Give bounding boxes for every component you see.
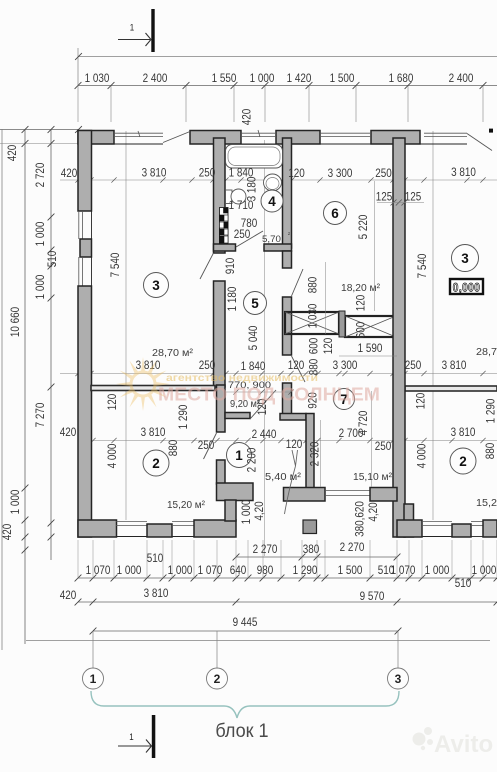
svg-text:4: 4 [268,194,276,209]
bath east wall [283,138,292,248]
svg-text:15,20 м²: 15,20 м² [167,500,206,511]
svg-text:510: 510 [46,251,59,268]
toilet [226,190,233,204]
top wall pier A (corner room 3) [78,131,114,145]
top wall pier D (party) [371,131,420,145]
axis row line [26,640,490,642]
dim line top [78,85,497,87]
svg-text:1 030: 1 030 [85,72,110,85]
window bath top [241,143,276,145]
top wall pier C (bath/kitchen) [276,131,320,145]
axis line unit2 [432,131,434,520]
bottom wall room2 segment A [78,520,117,537]
svg-text:9 445: 9 445 [233,616,258,629]
dim row y440 [93,440,497,442]
svg-text:15,10 м²: 15,10 м² [353,472,393,483]
dim line left horizontal [0,129,79,131]
svg-text:3 300: 3 300 [328,167,353,180]
door gap room 3 top leaf [163,132,190,143]
svg-text:2 400: 2 400 [449,72,474,85]
svg-text:120: 120 [286,438,303,451]
svg-text:4 000: 4 000 [416,444,429,469]
svg-text:блок 1: блок 1 [215,720,268,742]
svg-text:1 500: 1 500 [338,564,363,577]
left exterior wall lower [78,286,92,537]
svg-text:2: 2 [459,454,467,469]
svg-text:3 810: 3 810 [141,426,166,439]
bottom wall segment B [194,520,236,537]
svg-text:250: 250 [199,359,216,372]
porch north-west block [217,483,254,501]
svg-text:4,20: 4,20 [253,501,266,520]
svg-text:1 070: 1 070 [198,564,223,577]
svg-text:9 570: 9 570 [360,590,385,603]
spine wall lower [214,281,226,387]
svg-text:1: 1 [130,22,135,33]
party wall footing [404,504,414,537]
svg-text:15,20 м²: 15,20 м² [476,498,497,509]
svg-text:3: 3 [152,278,160,293]
dim line kitchen 1030 [325,262,327,334]
svg-text:250: 250 [199,167,216,180]
svg-text:250: 250 [405,359,422,372]
svg-text:510: 510 [147,552,164,565]
svg-text:420: 420 [61,167,78,180]
hall door to corridor leaf [250,390,276,419]
porch dim row [236,556,397,558]
svg-text:1: 1 [129,731,134,742]
block 1 brace [91,691,399,718]
dim line room7 4720 [371,391,373,487]
svg-text:1 290: 1 290 [485,399,497,424]
svg-text:1 290: 1 290 [177,405,190,430]
room1 west wall lower [217,460,226,484]
svg-text:600: 600 [308,338,321,355]
bottom wall unit2 segment A [397,520,422,537]
svg-text:1 000: 1 000 [250,72,275,85]
room circle 7 [334,389,355,410]
dim line corridor 770-900 [226,391,291,393]
svg-text:420: 420 [60,589,77,602]
svg-text:2: 2 [152,456,160,471]
plumbing shaft [220,208,229,244]
svg-text:1: 1 [235,448,243,463]
svg-text:6: 6 [331,206,339,221]
svg-text:1 680: 1 680 [389,72,414,85]
dim line left inner [50,130,52,561]
bath bottom wall left [214,244,236,251]
svg-text:Avito: Avito [434,731,493,758]
bottom wall unit2 window 2 [471,521,483,523]
party wall [393,138,405,537]
svg-text:3 810: 3 810 [442,359,467,372]
svg-text:380,620: 380,620 [354,501,367,537]
window room 3 top [114,143,163,145]
svg-text:2 700: 2 700 [339,427,364,440]
svg-text:910: 910 [224,258,237,275]
svg-text:1 000: 1 000 [9,490,22,515]
section mark 1 bottom [152,715,156,758]
top wall pier B (room3/bath) [190,131,241,145]
avito watermark [413,727,494,758]
room circle 3 [144,273,169,298]
svg-text:510: 510 [455,577,472,590]
bottom wall unit2 pier [452,524,471,537]
svg-text:2: 2 [214,672,221,686]
svg-text:420: 420 [1,524,14,541]
bottom dim row 3 [93,630,398,632]
svg-text:1 000: 1 000 [240,500,253,525]
svg-text:3: 3 [461,251,469,266]
bottom wall pier [147,524,172,537]
bath door leaf [236,231,263,247]
bath bottom wall right [264,244,292,251]
svg-text:1 000: 1 000 [168,564,193,577]
window unit2 top [420,143,467,145]
room circle 1 [227,443,252,468]
svg-text:3: 3 [395,672,402,686]
kitchen hatch box 2 [345,316,396,337]
svg-text:1: 1 [90,672,97,686]
svg-text:28,70 м²: 28,70 м² [476,347,497,358]
dim line left outer [24,130,26,645]
svg-text:1 000: 1 000 [425,564,450,577]
svg-text:1 290: 1 290 [293,564,318,577]
kitchen door leaf [292,269,304,296]
bathtub [226,145,283,169]
svg-text:7 270: 7 270 [34,403,47,428]
room circle 2 [450,448,476,474]
dim line 125-125 [377,202,424,204]
center vertical guide [264,140,266,556]
svg-text:3 810: 3 810 [136,359,161,372]
porch wall segment A [284,488,326,502]
svg-text:1 840: 1 840 [241,360,266,373]
kitchen hatch box 1 [285,312,339,334]
watermark sun [116,357,170,411]
left wall window 1 [78,211,80,239]
bottom wall window 1 [116,521,147,523]
axis circle 3 [397,631,399,668]
porch column [303,520,317,534]
svg-text:2 720: 2 720 [34,163,47,188]
svg-text:агентство недвижимости: агентство недвижимости [166,373,318,384]
svg-text:4,20: 4,20 [367,502,380,521]
svg-text:250: 250 [375,167,392,180]
door unit2 top leaf [467,134,492,151]
svg-text:3 180: 3 180 [246,177,259,202]
bottom dim row 1 [78,577,497,579]
dim row y180 [60,179,497,181]
room circle 5 [244,292,267,315]
svg-text:7 540: 7 540 [416,254,429,279]
room circle 6 [324,202,347,225]
svg-text:880: 880 [307,277,320,294]
svg-text:1 000: 1 000 [117,564,142,577]
divider hall-room7 [306,414,314,492]
room1-room2 door leaf [204,433,217,459]
bottom wall unit2 segment B [483,520,497,537]
svg-text:120: 120 [106,394,119,411]
dim line kitchen vertical [374,181,376,311]
bottom wall window 2 [172,521,194,523]
entry door leaf [292,450,298,466]
svg-text:3 810: 3 810 [451,166,476,179]
border line top [78,56,497,58]
svg-text:1 420: 1 420 [287,72,312,85]
svg-text:600: 600 [355,322,368,339]
svg-text:2 270: 2 270 [253,543,278,556]
axis circle 1 [92,631,94,668]
sink [264,174,282,191]
svg-text:420: 420 [241,109,254,126]
svg-text:3 810: 3 810 [144,587,169,600]
svg-text:2 440: 2 440 [252,428,277,441]
dim line room7 2320 [320,420,322,487]
svg-text:640: 640 [230,564,247,577]
svg-text:7 540: 7 540 [109,253,122,278]
room2 east wall lower [225,500,236,521]
room circle 3 [452,245,479,272]
svg-text:1 000: 1 000 [34,275,47,300]
svg-text:5 040: 5 040 [247,326,260,351]
corridor east wall lower [283,383,292,414]
left exterior wall upper pier [78,131,92,212]
divider wall rooms 3-2 unit1 [91,386,215,391]
svg-text:120: 120 [415,393,428,410]
svg-text:МЕСТО ПОД СОЛНЦЕМ: МЕСТО ПОД СОЛНЦЕМ [158,385,380,405]
svg-text:1 180: 1 180 [226,287,239,312]
room circle 2 [143,450,169,476]
porch wall segment B [370,488,397,502]
corridor east wall upper [283,251,292,268]
room7 door leaf [292,356,306,382]
svg-text:120: 120 [288,167,305,180]
svg-text:10 660: 10 660 [9,307,22,337]
svg-text:1 550: 1 550 [212,72,237,85]
frame line left [1,130,3,651]
svg-text:1 000: 1 000 [472,564,497,577]
svg-text:1 070: 1 070 [86,564,111,577]
svg-text:5,40 м²: 5,40 м² [265,472,302,483]
svg-text:880: 880 [484,443,497,460]
svg-text:5,70: 5,70 [262,234,281,245]
svg-text:28,70 м²: 28,70 м² [152,348,194,359]
svg-text:250: 250 [234,228,251,241]
svg-text:880: 880 [167,440,180,457]
bottom wall unit2 window 1 [422,521,452,523]
svg-text:250: 250 [198,439,215,452]
svg-text:2 200: 2 200 [246,448,259,473]
dim row y373 [60,373,497,375]
svg-text:120: 120 [355,295,368,312]
porch window [325,490,370,492]
svg-text:120: 120 [288,359,305,372]
svg-text:250: 250 [375,440,392,453]
section mark 1 top [151,9,154,52]
svg-text:2 270: 2 270 [340,541,365,554]
svg-text:4 000: 4 000 [106,444,119,469]
svg-text:980: 980 [257,564,274,577]
svg-text:125: 125 [376,191,393,204]
hall east wall top piece [280,414,306,421]
bottom dim row 2 [78,601,497,603]
svg-text:120: 120 [322,338,335,355]
svg-text:0,000: 0,000 [453,282,481,295]
left wall window 2 [78,257,80,286]
level mark 0.000 [450,279,483,294]
axis circle 2 [216,631,218,668]
svg-text:420: 420 [60,426,77,439]
spine wall door gap room3-corridor leaf [200,253,214,279]
svg-text:3 810: 3 810 [142,167,167,180]
window kitchen top [320,143,371,145]
svg-text:5: 5 [251,296,259,311]
svg-text:5 220: 5 220 [357,215,370,240]
svg-text:125: 125 [405,191,422,204]
svg-text:2 320: 2 320 [309,442,322,467]
svg-text:1 000: 1 000 [34,222,47,247]
svg-text:1 030: 1 030 [307,304,320,329]
svg-text:3 300: 3 300 [333,359,358,372]
room circle 4 [261,190,283,212]
svg-text:2 400: 2 400 [143,72,168,85]
hatch box joint wall [339,311,345,337]
svg-text:1 070: 1 070 [391,564,416,577]
room1 west wall upper [217,385,226,432]
svg-text:3 810: 3 810 [451,426,476,439]
divider wall rooms 3-2 unit2 [405,386,497,391]
spine wall upper (room3/bath+corridor) [214,138,226,253]
svg-text:420: 420 [6,145,19,162]
left wall mid pier [80,239,92,257]
axis line unit1 [125,131,127,520]
svg-text:1 500: 1 500 [330,72,355,85]
svg-text:1 590: 1 590 [358,342,383,355]
hall top wall [225,413,250,419]
